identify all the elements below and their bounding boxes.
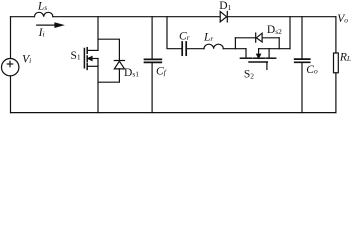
capacitor Co plates <box>295 59 310 62</box>
wire top rail middle <box>53 16 220 18</box>
transistor S2 source stub <box>268 49 270 58</box>
inductor Ls <box>34 12 53 16</box>
wire Ds2 top left <box>235 37 255 39</box>
capacitor Cf top wire <box>151 17 153 59</box>
svg-text:Vo: Vo <box>337 13 348 25</box>
current arrow Ii <box>37 23 63 27</box>
transistor S2 drain stub <box>245 49 247 58</box>
svg-text:Ds1: Ds1 <box>124 67 139 79</box>
voltage source Vi circle <box>2 58 19 75</box>
transistor S2 channel segments <box>240 57 275 59</box>
svg-text:Ii: Ii <box>38 27 45 39</box>
diode D1 <box>220 12 227 22</box>
svg-text:D1: D1 <box>219 0 231 12</box>
diode Ds2 <box>256 33 262 42</box>
wire right side bottom <box>335 73 337 113</box>
wire right side top <box>335 17 337 53</box>
wire left side top <box>10 17 12 59</box>
transistor S2 gate bar <box>249 61 267 63</box>
svg-text:Cf: Cf <box>156 65 167 77</box>
capacitor Cf plates <box>145 59 162 62</box>
wire left side bottom <box>10 76 12 113</box>
transistor S1 gate bar <box>83 49 85 68</box>
svg-text:Vi: Vi <box>22 53 31 65</box>
wire Lr to S2 <box>223 48 246 50</box>
wire top rail left <box>11 16 35 18</box>
wire Ds1 top jog <box>98 39 119 60</box>
wire bottom rail <box>11 112 336 114</box>
svg-text:RL: RL <box>339 52 351 64</box>
diode Ds1 <box>114 61 124 69</box>
transistor S1 source wire <box>97 59 99 113</box>
svg-text:S2: S2 <box>244 69 254 81</box>
transistor S2 gate lead <box>266 62 268 70</box>
capacitor Cr plates <box>182 42 186 55</box>
transistor S1 drain stub <box>88 49 98 51</box>
wire aux return vertical <box>289 17 291 49</box>
wire top rail right <box>227 16 336 18</box>
capacitor Co bottom wire <box>301 63 303 112</box>
resistor RL box <box>334 53 339 73</box>
transistor S1 drain wire <box>97 17 99 51</box>
transistor S1 channel segments <box>86 48 88 70</box>
transistor S2 body arrow <box>257 49 261 58</box>
wire Cr to Lr <box>187 48 204 50</box>
svg-text:Ls: Ls <box>37 1 47 13</box>
wire Ds2 top right <box>262 37 279 39</box>
svg-text:Ds2: Ds2 <box>267 24 282 36</box>
svg-text:Co: Co <box>306 64 318 76</box>
inductor Lr <box>204 44 223 49</box>
wire S2 right rail <box>259 48 290 50</box>
capacitor Cf bottom wire <box>151 63 153 112</box>
capacitor Co top wire <box>301 17 303 59</box>
wire aux branch drop <box>167 17 181 49</box>
transistor S1 body arrow <box>88 57 98 61</box>
svg-text:S1: S1 <box>71 50 81 62</box>
plus sign of source <box>7 61 12 66</box>
transistor S1 source stub <box>88 65 98 67</box>
wire Ds2 right vertical <box>278 38 280 49</box>
svg-text:Lr: Lr <box>203 31 213 43</box>
wire Ds2 left vertical <box>234 38 236 49</box>
svg-text:Cr: Cr <box>179 31 190 43</box>
wire Ds1 bottom jog <box>98 69 119 82</box>
